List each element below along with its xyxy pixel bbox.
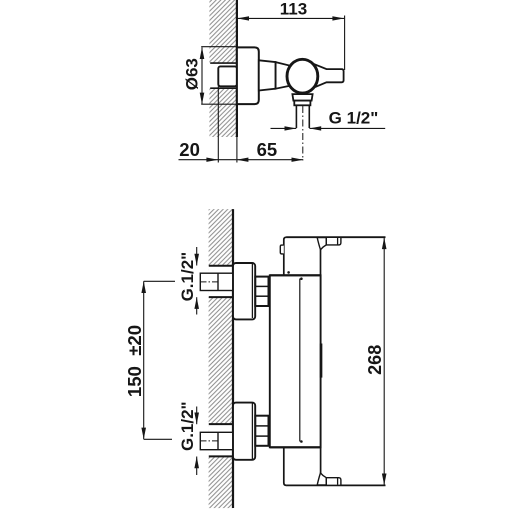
svg-text:Ø63: Ø63 <box>182 58 201 90</box>
svg-text:65: 65 <box>257 139 278 160</box>
svg-text:113: 113 <box>280 0 307 19</box>
svg-text:G.1/2": G.1/2" <box>178 401 197 451</box>
svg-text:G 1/2": G 1/2" <box>329 109 379 128</box>
svg-text:268: 268 <box>365 345 385 375</box>
svg-text:150 ±20: 150 ±20 <box>124 325 145 397</box>
svg-text:G.1/2": G.1/2" <box>178 252 197 302</box>
svg-text:20: 20 <box>179 139 200 160</box>
